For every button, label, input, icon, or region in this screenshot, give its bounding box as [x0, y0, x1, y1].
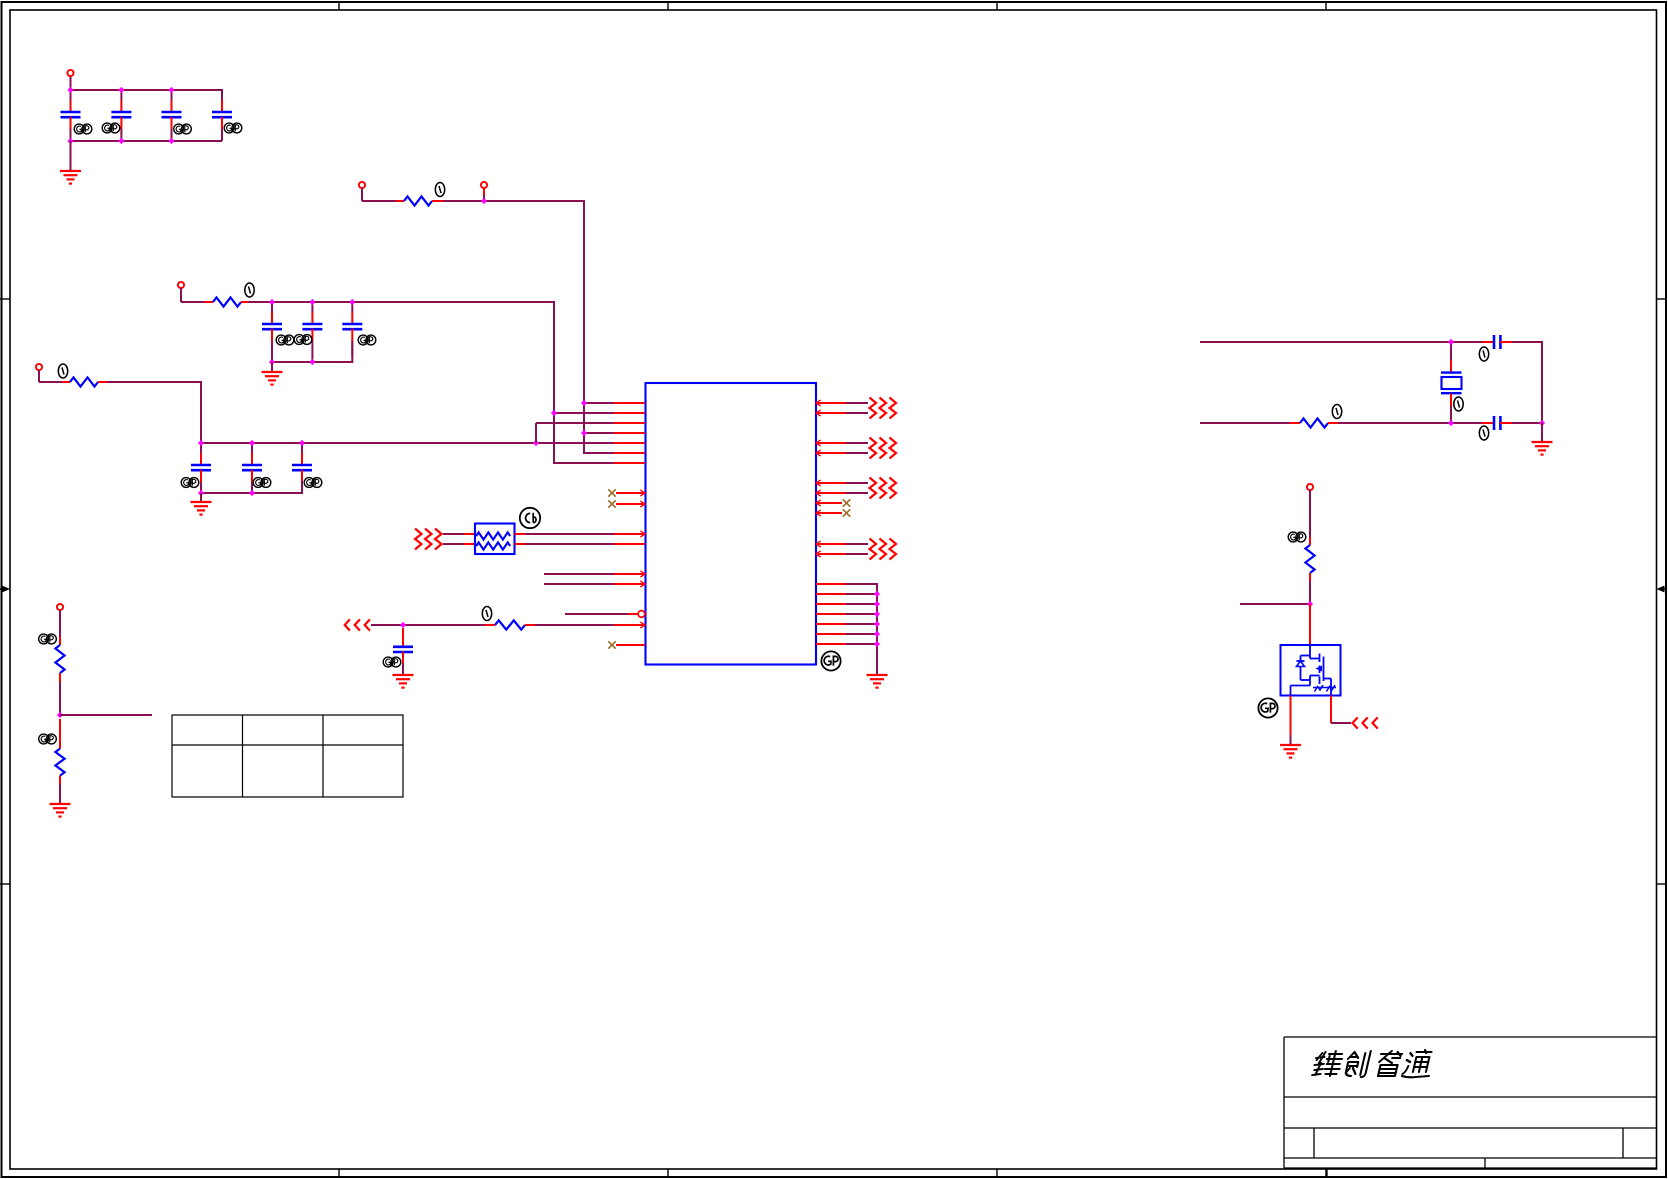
capacitor C11: [402, 628, 404, 647]
label C3: [174, 124, 184, 134]
wire C7 bottom elbow: [351, 341, 353, 362]
wire net3 bus: [201, 442, 536, 444]
stub wire pin L13: [544, 583, 614, 585]
wire xtal bottom rail: [1200, 422, 1290, 424]
wire stub pin L1: [584, 402, 614, 404]
node junction divider: [57, 712, 63, 718]
wire row625 left: [371, 624, 485, 626]
wire C10 bottom elbow: [301, 481, 303, 493]
capacitor C12: [1450, 341, 1482, 343]
transistor Q1: [1281, 645, 1341, 696]
wire Q1 gate out: [1330, 696, 1332, 724]
wire branch up to pin row 423: [535, 423, 537, 443]
wire RP1 input a: [443, 533, 464, 535]
label R6: [1288, 532, 1298, 542]
node junction Q1 drain: [1307, 601, 1313, 607]
off-page connector R2: [870, 438, 877, 459]
power terminal VCC cap bank: [70, 76, 72, 90]
pin R3a: [816, 482, 846, 484]
pin R3b: [816, 492, 846, 494]
capacitor C9: [251, 443, 253, 453]
label C7: [358, 335, 368, 345]
capacitor C4: [221, 111, 223, 113]
ground Q1: [1280, 744, 1301, 746]
table revision: [172, 715, 403, 797]
wire divider tap: [60, 714, 152, 716]
node junctions net3 top: [198, 440, 204, 446]
label C12: [1479, 347, 1488, 361]
label R8: [39, 734, 49, 744]
centering arrow right edge: [1660, 588, 1666, 590]
off-page connector R5: [870, 539, 877, 560]
pin GB3: [816, 603, 846, 605]
label R2: [245, 283, 254, 297]
wire ground bus right: [876, 584, 878, 675]
label Q1 GP: [1258, 698, 1277, 717]
label U1 GP: [821, 651, 840, 670]
inverted pin L14: [565, 613, 628, 615]
off-page connector into RP1: [415, 529, 422, 550]
terminal T2 net1: [481, 182, 487, 188]
capacitor C7: [351, 302, 353, 312]
crystal Y1: [1450, 342, 1452, 360]
node junctions cap bank top bus: [67, 87, 73, 93]
pin R5a: [816, 543, 846, 545]
wire stub pin L2: [554, 412, 614, 414]
wire stub pin L7: [554, 462, 614, 464]
resistor R8: [59, 719, 61, 749]
node junctions net3 bottom: [198, 490, 204, 496]
wire RP1 out b: [515, 543, 526, 545]
pin R2a: [816, 442, 846, 444]
label R3: [58, 364, 67, 378]
ground C11: [393, 674, 414, 676]
pin GB7: [816, 643, 846, 645]
ground cap bank: [60, 170, 81, 172]
pin GB5: [816, 623, 846, 625]
pin R5b: [816, 553, 846, 555]
zone ticks bottom edge: [338, 1169, 340, 1177]
resistor R5: [1290, 422, 1300, 424]
pin GB1: [816, 583, 846, 585]
terminal T4 net3: [36, 364, 42, 370]
wire stub pin L5: [614, 442, 645, 444]
label C13: [1479, 426, 1488, 440]
resistor R7: [55, 645, 64, 673]
wire xtal top rail: [1200, 341, 1451, 343]
terminal T3 net2: [178, 282, 184, 288]
wire to ground net2: [271, 362, 273, 372]
wire drain red drop: [1309, 604, 1311, 645]
no-connect pin R4a: [816, 502, 842, 504]
node junction row625: [400, 622, 406, 628]
capacitor C10: [301, 443, 303, 453]
capacitor C3: [171, 90, 173, 100]
off-page connector Q1 gate: [1353, 717, 1358, 728]
pin R1a: [816, 402, 846, 404]
label RP1 Cb: [520, 508, 540, 528]
label C2: [102, 123, 112, 133]
label C4: [224, 123, 234, 133]
capacitor C2: [120, 90, 122, 100]
label C10: [304, 478, 314, 488]
wire net3 elbow: [107, 381, 201, 383]
resistor pack RP1: [475, 524, 515, 555]
zone ticks left edge: [0, 298, 10, 300]
resistor R4: [485, 624, 495, 626]
capacitor C5: [271, 302, 273, 312]
pin R1b: [816, 412, 846, 414]
no-connect pin L8: [608, 489, 615, 496]
label C5: [276, 335, 286, 345]
ground divider: [50, 803, 71, 805]
wire stub pin L4: [584, 432, 614, 434]
label R1: [435, 183, 444, 197]
resistor R3: [39, 381, 62, 383]
off-page connector R3: [870, 478, 877, 499]
off-page connector R1: [870, 398, 877, 419]
pin L10 from RP1: [640, 531, 645, 537]
wire gate rail left: [1240, 603, 1310, 605]
label C11: [383, 657, 393, 667]
wire RP1 input b: [443, 543, 464, 545]
label R7: [39, 634, 49, 644]
zone ticks top edge: [338, 2, 340, 10]
ground xtal: [1532, 441, 1553, 443]
no-connect pin R4b: [816, 512, 842, 514]
capacitor C6: [311, 302, 313, 312]
label Y1: [1454, 397, 1463, 411]
off-page connector row625: [345, 619, 350, 630]
wire Q1 source to ground: [1290, 696, 1292, 736]
wire right drop: [1541, 341, 1543, 423]
pin GB2: [816, 593, 846, 595]
wire net2 bus: [248, 301, 554, 303]
wire bottom bus cap bank: [70, 140, 223, 142]
node junctions net2 top: [269, 299, 275, 305]
node junctions ground bus: [874, 591, 880, 597]
resistor R1: [362, 200, 396, 202]
wire to ground cap bank: [70, 141, 72, 171]
label C8: [181, 478, 191, 488]
resistor R2: [181, 301, 205, 303]
capacitor C13: [1450, 422, 1482, 424]
wire net1 to IC column: [443, 200, 584, 202]
pin GB4: [816, 613, 846, 615]
no-connect pin L9: [608, 500, 615, 507]
no-connect pin L16: [608, 641, 615, 648]
op IC U1 body: [646, 383, 817, 665]
label C6: [294, 335, 304, 345]
label C1: [74, 124, 84, 134]
ground IC bundle: [867, 674, 888, 676]
node T2 junction: [481, 198, 487, 204]
pin GB6: [816, 633, 846, 635]
pin L15 row 625: [640, 622, 645, 628]
label R5: [1332, 405, 1341, 419]
wire divider bottom: [59, 776, 61, 784]
terminal T5 Q1: [1307, 484, 1313, 490]
wire top bus cap bank: [70, 89, 223, 91]
node junctions IC feed columns: [581, 400, 587, 406]
wire to ground net3: [200, 493, 202, 502]
terminal T6 divider: [57, 604, 63, 610]
wire stub pin L3: [614, 422, 645, 424]
pin R2b: [816, 452, 846, 454]
capacitor C8: [200, 443, 202, 453]
resistor R6: [1309, 537, 1311, 545]
label C9: [253, 478, 263, 488]
wire divider mid: [59, 673, 61, 682]
wire stub pin L6: [584, 452, 614, 454]
wire RP1 out a: [515, 533, 526, 535]
ground net2: [262, 371, 283, 373]
ground net3: [191, 501, 212, 503]
node junctions cap bank bottom bus: [67, 138, 73, 144]
title block frame: [1284, 1037, 1657, 1177]
terminal T1 net1: [359, 182, 365, 188]
centering arrow left edge: [0, 588, 6, 590]
label R4: [482, 607, 491, 621]
zone ticks right edge: [1657, 298, 1667, 300]
node junction xtal top: [1448, 339, 1454, 345]
node junction xtal bottom: [1448, 420, 1454, 426]
node junction ground drop: [1539, 420, 1545, 426]
company name text: [1312, 1050, 1435, 1077]
stub wire pin L12: [544, 573, 614, 575]
node junctions net2 bottom: [269, 359, 275, 365]
capacitor C1: [70, 90, 72, 100]
wire xtal ground: [1541, 423, 1543, 442]
